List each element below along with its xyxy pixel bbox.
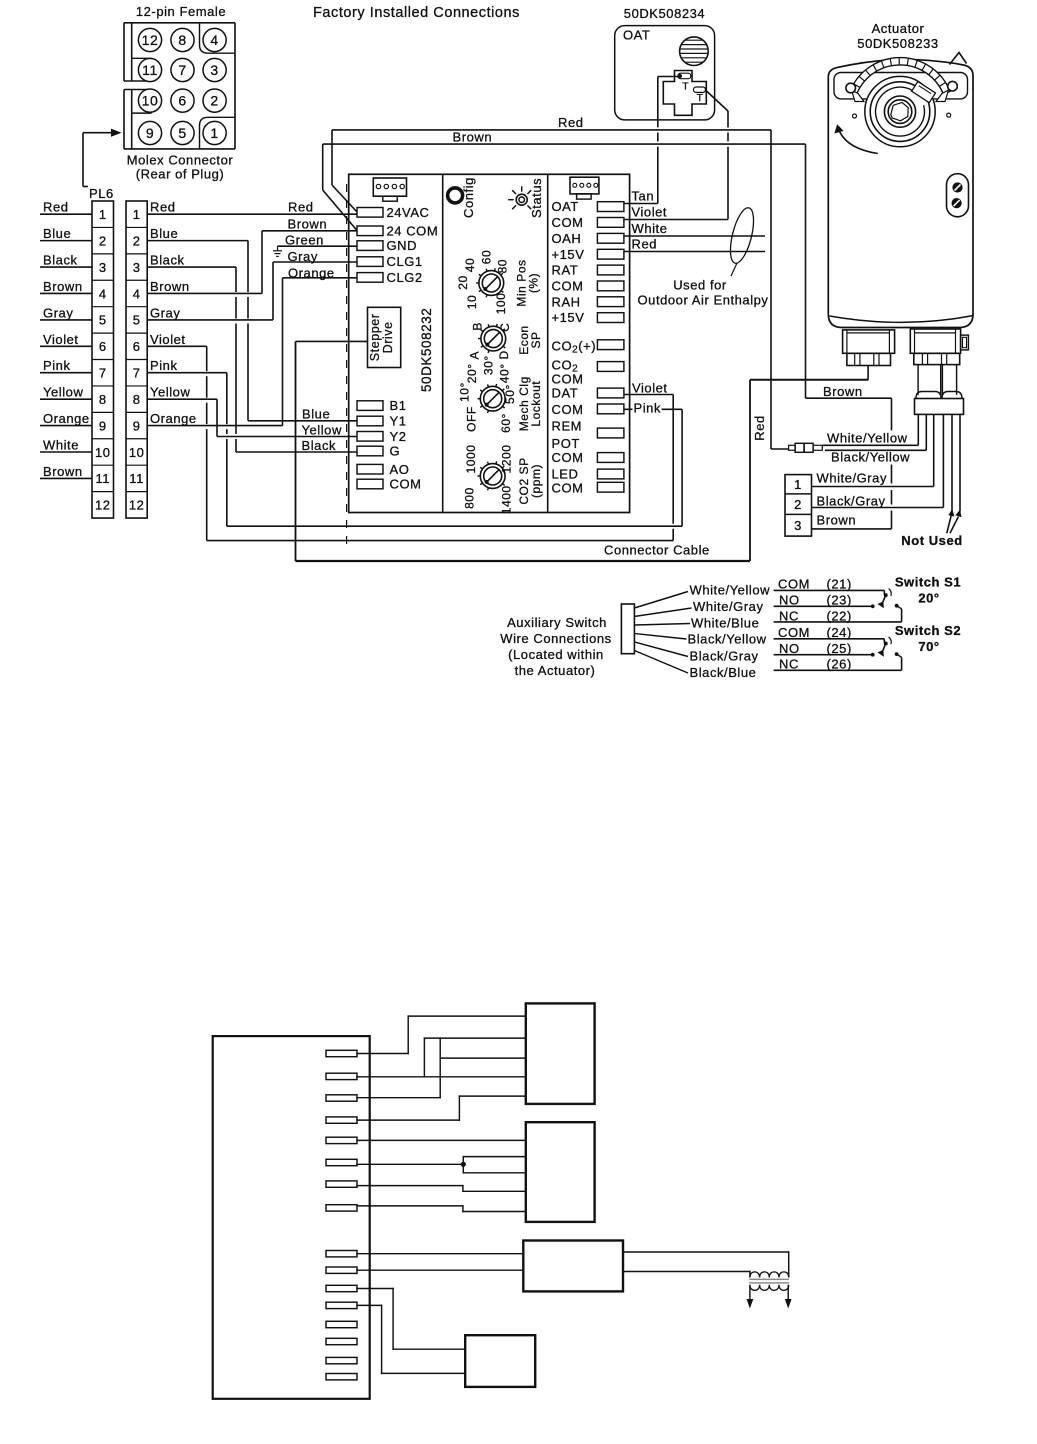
svg-text:2: 2 — [210, 93, 218, 109]
svg-text:COM: COM — [552, 372, 584, 387]
svg-text:White/Gray: White/Gray — [817, 471, 888, 486]
svg-text:Brown: Brown — [43, 464, 83, 479]
svg-text:White/Blue: White/Blue — [691, 616, 759, 631]
svg-text:(23): (23) — [827, 592, 852, 607]
svg-text:REM: REM — [552, 418, 583, 433]
svg-text:12: 12 — [129, 498, 145, 513]
svg-text:RAH: RAH — [552, 294, 581, 309]
svg-text:Black/Blue: Black/Blue — [690, 665, 757, 680]
svg-text:Switch S1: Switch S1 — [895, 575, 961, 590]
svg-text:3: 3 — [210, 62, 218, 78]
svg-text:(25): (25) — [827, 641, 852, 656]
svg-text:Red: Red — [558, 115, 584, 130]
svg-text:POT: POT — [552, 436, 580, 451]
svg-text:11: 11 — [129, 471, 144, 486]
svg-text:10: 10 — [129, 445, 145, 460]
svg-text:8: 8 — [178, 32, 186, 48]
svg-text:(26): (26) — [827, 657, 852, 672]
svg-text:(Rear of Plug): (Rear of Plug) — [136, 167, 225, 182]
svg-text:(ppm): (ppm) — [529, 464, 543, 498]
svg-text:+15V: +15V — [552, 310, 585, 325]
svg-text:Brown: Brown — [817, 513, 857, 528]
svg-text:20°: 20° — [465, 363, 479, 383]
svg-text:6: 6 — [99, 339, 107, 354]
svg-text:4: 4 — [99, 286, 107, 301]
svg-text:NC: NC — [779, 608, 799, 623]
svg-text:2: 2 — [794, 497, 802, 512]
svg-text:10: 10 — [95, 445, 111, 460]
svg-text:Pink: Pink — [634, 401, 662, 416]
svg-text:30°: 30° — [482, 355, 496, 375]
svg-text:12: 12 — [142, 32, 159, 48]
svg-text:+15V: +15V — [552, 247, 585, 262]
svg-text:Violet: Violet — [632, 381, 668, 396]
svg-text:Black: Black — [43, 253, 78, 268]
svg-text:Yellow: Yellow — [150, 385, 190, 400]
svg-text:20°: 20° — [918, 591, 939, 606]
svg-text:T: T — [697, 92, 704, 104]
svg-text:11: 11 — [95, 471, 110, 486]
svg-text:COM: COM — [778, 577, 810, 592]
svg-text:Factory Installed Connections: Factory Installed Connections — [313, 5, 520, 21]
svg-text:3: 3 — [794, 518, 802, 533]
svg-text:White: White — [632, 221, 668, 236]
svg-text:2: 2 — [133, 233, 141, 248]
svg-text:Brown: Brown — [150, 279, 190, 294]
svg-text:COM: COM — [552, 450, 584, 465]
svg-text:6: 6 — [133, 339, 141, 354]
svg-text:PL6: PL6 — [89, 186, 114, 201]
svg-text:T: T — [682, 81, 689, 93]
svg-text:Orange: Orange — [288, 266, 335, 281]
svg-text:OAT: OAT — [623, 28, 650, 43]
svg-text:(Located within: (Located within — [508, 647, 604, 662]
svg-text:5: 5 — [99, 313, 107, 328]
svg-text:(21): (21) — [827, 577, 852, 592]
svg-text:Blue: Blue — [302, 407, 330, 422]
svg-text:12: 12 — [95, 498, 111, 513]
svg-text:4: 4 — [133, 286, 141, 301]
svg-text:Red: Red — [632, 237, 658, 252]
svg-text:7: 7 — [178, 62, 186, 78]
svg-text:50DK508233: 50DK508233 — [857, 36, 938, 51]
svg-text:A: A — [468, 351, 482, 360]
svg-text:Black/Yellow: Black/Yellow — [831, 450, 910, 465]
svg-text:B1: B1 — [390, 398, 407, 413]
svg-text:Not Used: Not Used — [901, 533, 962, 548]
svg-text:Used for: Used for — [673, 278, 727, 293]
svg-text:7: 7 — [99, 366, 107, 381]
svg-text:50°: 50° — [503, 384, 517, 404]
svg-text:COM: COM — [390, 477, 422, 492]
svg-text:SP: SP — [529, 331, 543, 348]
svg-text:the Actuator): the Actuator) — [515, 663, 596, 678]
svg-text:Pink: Pink — [43, 358, 71, 373]
svg-text:60°: 60° — [499, 413, 513, 433]
svg-text:24 COM: 24 COM — [387, 223, 439, 238]
svg-text:7: 7 — [133, 366, 141, 381]
svg-text:Brown: Brown — [823, 384, 863, 399]
svg-text:Violet: Violet — [632, 205, 668, 220]
svg-text:80: 80 — [496, 259, 510, 273]
svg-text:Gray: Gray — [43, 305, 73, 320]
svg-text:Yellow: Yellow — [43, 385, 83, 400]
svg-text:(22): (22) — [827, 608, 852, 623]
svg-text:COM: COM — [778, 625, 810, 640]
svg-text:Brown: Brown — [453, 130, 493, 145]
svg-text:OAT: OAT — [552, 199, 579, 214]
svg-text:White: White — [43, 437, 79, 452]
svg-text:5: 5 — [133, 313, 141, 328]
svg-text:Yellow: Yellow — [302, 423, 342, 438]
svg-text:1: 1 — [210, 125, 218, 141]
svg-text:OFF: OFF — [464, 406, 478, 432]
svg-text:COM: COM — [552, 480, 584, 495]
svg-text:Red: Red — [752, 415, 767, 441]
svg-text:White/Yellow: White/Yellow — [690, 583, 771, 598]
svg-text:G: G — [390, 444, 401, 459]
svg-text:Y2: Y2 — [390, 429, 407, 444]
svg-text:10: 10 — [465, 295, 479, 309]
svg-text:50DK508232: 50DK508232 — [419, 308, 434, 392]
svg-text:Config: Config — [461, 177, 476, 218]
svg-text:NO: NO — [779, 592, 800, 607]
svg-text:3: 3 — [133, 260, 141, 275]
svg-text:24VAC: 24VAC — [387, 205, 430, 220]
svg-text:AO: AO — [390, 462, 410, 477]
svg-text:40°: 40° — [498, 363, 512, 383]
svg-text:1: 1 — [133, 207, 141, 222]
svg-text:LED: LED — [552, 467, 579, 482]
svg-text:5: 5 — [178, 125, 186, 141]
svg-text:Status: Status — [529, 178, 544, 218]
svg-text:White/Yellow: White/Yellow — [827, 431, 908, 446]
svg-text:9: 9 — [133, 418, 141, 433]
svg-text:Violet: Violet — [43, 332, 79, 347]
svg-text:Gray: Gray — [288, 249, 318, 264]
svg-text:Y1: Y1 — [390, 414, 407, 429]
svg-text:Black/Yellow: Black/Yellow — [688, 632, 767, 647]
svg-text:Black/Gray: Black/Gray — [817, 494, 886, 509]
svg-text:Outdoor Air Enthalpy: Outdoor Air Enthalpy — [638, 293, 769, 308]
svg-text:2: 2 — [99, 233, 107, 248]
svg-text:3: 3 — [99, 260, 107, 275]
svg-text:Red: Red — [150, 200, 176, 215]
svg-text:800: 800 — [462, 487, 476, 509]
svg-text:D: D — [497, 350, 511, 359]
svg-text:Tan: Tan — [632, 189, 655, 204]
svg-text:9: 9 — [146, 125, 154, 141]
svg-text:COM: COM — [552, 215, 584, 230]
svg-text:10: 10 — [142, 93, 159, 109]
svg-text:8: 8 — [99, 392, 107, 407]
svg-text:Stepper: Stepper — [368, 314, 382, 362]
svg-text:(24): (24) — [827, 625, 852, 640]
svg-text:Switch S2: Switch S2 — [895, 623, 961, 638]
svg-text:Auxiliary Switch: Auxiliary Switch — [507, 615, 607, 630]
svg-text:100: 100 — [494, 293, 508, 315]
svg-text:60: 60 — [480, 250, 494, 264]
svg-text:Brown: Brown — [43, 279, 83, 294]
svg-text:CLG1: CLG1 — [387, 254, 423, 269]
svg-text:(%): (%) — [527, 273, 541, 293]
svg-text:CLG2: CLG2 — [387, 270, 423, 285]
svg-text:COM: COM — [552, 279, 584, 294]
svg-text:Blue: Blue — [150, 226, 178, 241]
svg-text:C: C — [498, 323, 512, 332]
svg-text:B: B — [471, 322, 485, 331]
svg-text:Red: Red — [288, 200, 314, 215]
svg-text:Molex Connector: Molex Connector — [127, 153, 234, 168]
svg-text:RAT: RAT — [552, 263, 579, 278]
svg-text:Orange: Orange — [43, 411, 90, 426]
svg-text:1000: 1000 — [464, 445, 478, 474]
svg-text:COM: COM — [552, 402, 584, 417]
svg-text:NO: NO — [779, 641, 800, 656]
svg-text:Black: Black — [302, 438, 337, 453]
svg-text:DAT: DAT — [552, 386, 579, 401]
svg-text:20: 20 — [456, 275, 470, 289]
svg-text:Lockout: Lockout — [529, 381, 543, 427]
svg-text:10°: 10° — [458, 382, 472, 402]
svg-text:40: 40 — [463, 258, 477, 272]
svg-text:8: 8 — [133, 392, 141, 407]
svg-text:50DK508234: 50DK508234 — [624, 6, 705, 21]
svg-text:NC: NC — [779, 657, 799, 672]
svg-text:1: 1 — [99, 207, 107, 222]
svg-text:Connector Cable: Connector Cable — [604, 543, 710, 558]
svg-text:Pink: Pink — [150, 358, 178, 373]
svg-text:11: 11 — [142, 62, 158, 78]
svg-text:Blue: Blue — [43, 226, 71, 241]
svg-text:Gray: Gray — [150, 305, 180, 320]
svg-text:OAH: OAH — [552, 231, 582, 246]
svg-text:Wire Connections: Wire Connections — [500, 631, 611, 646]
svg-text:Green: Green — [285, 233, 324, 248]
svg-text:GND: GND — [387, 238, 418, 253]
svg-text:Violet: Violet — [150, 332, 186, 347]
svg-text:Drive: Drive — [381, 321, 395, 353]
svg-text:Black/Gray: Black/Gray — [690, 649, 759, 664]
svg-text:Brown: Brown — [288, 217, 328, 232]
svg-text:4: 4 — [210, 32, 218, 48]
svg-text:1200: 1200 — [499, 445, 513, 474]
svg-text:Actuator: Actuator — [872, 21, 925, 36]
svg-text:Orange: Orange — [150, 411, 197, 426]
svg-text:70°: 70° — [918, 639, 939, 654]
svg-text:1400: 1400 — [499, 485, 513, 514]
svg-text:12-pin Female: 12-pin Female — [136, 4, 226, 19]
svg-text:6: 6 — [178, 93, 186, 109]
svg-text:Red: Red — [43, 200, 69, 215]
svg-text:White/Gray: White/Gray — [693, 599, 764, 614]
svg-text:9: 9 — [99, 418, 107, 433]
svg-text:1: 1 — [794, 477, 802, 492]
svg-text:Black: Black — [150, 253, 185, 268]
